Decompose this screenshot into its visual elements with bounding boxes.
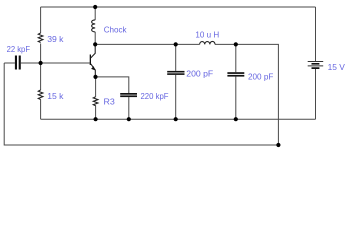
svg-text:15 V: 15 V (328, 62, 345, 72)
svg-text:220 kpF: 220 kpF (141, 91, 169, 101)
svg-text:22 kpF: 22 kpF (7, 44, 30, 54)
svg-text:R3: R3 (104, 97, 115, 107)
svg-text:39 k: 39 k (47, 34, 64, 44)
svg-text:15 k: 15 k (47, 91, 64, 101)
svg-text:200 pF: 200 pF (186, 68, 213, 78)
svg-text:10 u H: 10 u H (195, 30, 219, 40)
svg-text:200 pF: 200 pF (248, 72, 273, 82)
svg-text:Chock: Chock (104, 24, 128, 34)
